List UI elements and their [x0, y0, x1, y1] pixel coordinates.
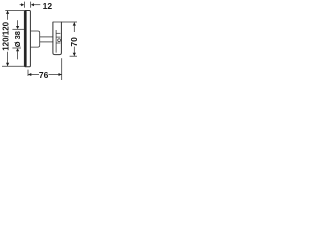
- escutcheon boss: [31, 31, 40, 47]
- dim 120/120 bottom extension line: [2, 65, 24, 67]
- dim 76 right extension line (projection of holder front): [61, 58, 63, 80]
- wall plate thick left wall: [24, 11, 26, 67]
- dim 12 right tail: [33, 4, 40, 6]
- dim 70 line upper segment: [73, 22, 75, 32]
- dim 76 line left segment: [28, 74, 39, 76]
- holder inner ledge line 3: [56, 42, 60, 44]
- holder hook top bar + right extension line to dim: [53, 21, 77, 23]
- dim 120/120 dimension line lower segment: [7, 52, 9, 66]
- dim 12 left tail: [20, 4, 22, 6]
- dim 70 top arrow: [73, 22, 76, 25]
- dim Ø38 line upper tail: [17, 20, 19, 26]
- dim 76 right arrow (pointing right): [59, 73, 62, 76]
- svg-text:12: 12: [43, 1, 53, 11]
- wall plate outline: [24, 11, 30, 67]
- dim 12 right arrow (pointing left): [31, 3, 34, 6]
- dim 12 left extension line: [23, 2, 25, 8]
- dim 70 bottom extension line: [70, 55, 77, 57]
- dim Ø38 lower arrow (pointing up): [16, 48, 19, 51]
- svg-text:70: 70: [69, 37, 79, 47]
- holder inner ledge line 1: [56, 32, 60, 34]
- svg-text:Ø 38: Ø 38: [13, 31, 22, 47]
- dim Ø38 bottom extension line: [12, 47, 21, 49]
- dim 12 right extension line: [30, 2, 32, 8]
- dim 12 left arrow (pointing right): [21, 3, 24, 6]
- dim 76 left extension line: [27, 70, 29, 76]
- arm neck top line: [40, 36, 54, 38]
- dim 70 bottom arrow: [73, 53, 76, 56]
- svg-text:76: 76: [39, 70, 49, 80]
- dim 120/120 bottom arrow: [6, 63, 9, 66]
- holder inner vertical wall: [55, 30, 57, 53]
- dim 76 left arrow (pointing left): [28, 73, 31, 76]
- dim 120/120 top arrow: [6, 11, 9, 14]
- dim Ø38 top extension line: [12, 28, 24, 30]
- dim 76 line right segment: [49, 74, 62, 76]
- arm neck bottom line: [40, 41, 54, 43]
- dim 120/120 top extension line: [5, 10, 24, 12]
- dim 120/120 dimension line upper segment: [7, 11, 9, 20]
- holder inner ledge line 2: [56, 36, 60, 38]
- dim 70 line lower segment: [73, 47, 75, 56]
- holder clamp button circle: [58, 39, 61, 42]
- dim Ø38 line lower tail: [17, 51, 19, 60]
- svg-text:120/120: 120/120: [2, 21, 11, 50]
- holder body outline: [53, 22, 62, 55]
- dim Ø38 upper arrow (pointing down): [16, 26, 19, 29]
